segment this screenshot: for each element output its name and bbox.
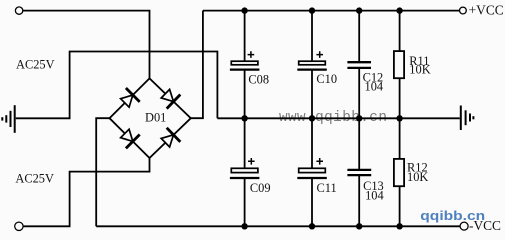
svg-text:C11: C11 [317, 181, 337, 195]
junction dots bottom rail [241, 223, 402, 229]
svg-text:10K: 10K [409, 63, 430, 77]
wire: R11/R12 branch vertical [399, 11, 401, 227]
wire: +VCC top rail [203, 10, 460, 12]
ground (left) [2, 105, 14, 133]
capacitor C11 [297, 158, 336, 195]
wire: top AC input to bridge top vertex [23, 11, 150, 79]
capacitor C12 [347, 62, 383, 93]
diode D1 (top-left edge, points to top vertex) [121, 88, 140, 107]
junction dots mid rail [241, 115, 402, 121]
capacitor C09 [230, 158, 271, 195]
wire: bottom AC input to bridge bottom vertex [23, 158, 150, 226]
terminal: bottom AC input [15, 222, 23, 230]
wire: C10 branch vertical [311, 11, 313, 227]
svg-text:C08: C08 [248, 73, 269, 87]
terminal: top AC input [15, 7, 22, 14]
diode D3 (bottom-left edge, points to bottom vertex) [121, 129, 140, 148]
svg-text:C10: C10 [316, 72, 337, 86]
wire: mid ground rail [217, 117, 459, 119]
svg-text:-VCC: -VCC [469, 218, 501, 233]
terminal: +VCC [460, 7, 467, 14]
bridge D01 diamond [110, 78, 191, 158]
svg-text:104: 104 [365, 79, 384, 93]
diode D2 (top-right edge, points to right vertex) [161, 89, 180, 108]
capacitor C13 [347, 170, 383, 203]
junction dots top rail [241, 7, 402, 13]
wire: bridge left vertex to -VCC drop [96, 118, 109, 226]
svg-text:10K: 10K [407, 170, 428, 184]
ground (right) [461, 106, 474, 131]
resistor R12 [394, 159, 428, 186]
terminal: -VCC [460, 222, 468, 230]
wire: bridge right vertex up to +VCC rail [191, 11, 203, 119]
svg-text:AC25V: AC25V [16, 58, 55, 72]
svg-text:C09: C09 [250, 181, 271, 195]
svg-text:D01: D01 [145, 110, 166, 124]
svg-text:+VCC: +VCC [469, 3, 504, 18]
wire: left ground up and over bridge to mid rail [16, 52, 218, 119]
capacitor C10 [297, 51, 337, 86]
diode D4 (bottom-right edge, points to right vertex) [161, 128, 180, 147]
capacitor C08 [230, 51, 269, 86]
wire: C12 branch vertical [358, 11, 360, 227]
wire: -VCC bottom rail [96, 225, 460, 227]
svg-text:AC25V: AC25V [15, 172, 54, 186]
svg-text:104: 104 [365, 189, 384, 203]
resistor R11 [394, 51, 431, 78]
wire: C08 branch vertical [244, 11, 246, 227]
